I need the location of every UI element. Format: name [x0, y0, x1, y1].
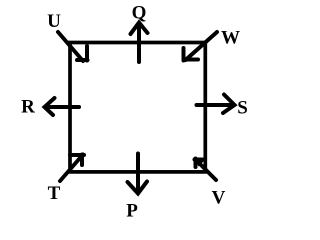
svg-text:Q: Q	[132, 3, 147, 24]
arrow V (bottom-right corner, pointing up-left into square)	[195, 159, 217, 181]
svg-text:W: W	[221, 28, 240, 49]
svg-text:S: S	[237, 98, 248, 119]
square outline	[70, 43, 205, 172]
arrow U (top-left corner, pointing down-right into square)	[58, 32, 88, 61]
arrow T (bottom-left corner, pointing up-right into square)	[60, 155, 84, 182]
svg-text:P: P	[126, 201, 138, 222]
arrow S (right, pointing right)	[197, 95, 235, 114]
arrow P (bottom, pointing down)	[128, 154, 148, 194]
svg-text:V: V	[212, 188, 226, 209]
arrow R (left, pointing left)	[45, 98, 80, 115]
svg-text:T: T	[48, 183, 61, 204]
svg-text:U: U	[47, 11, 61, 32]
svg-text:R: R	[21, 97, 35, 118]
arrow Q (top, pointing up)	[131, 23, 148, 63]
arrow W (top-right corner, pointing down-left into square)	[184, 32, 218, 61]
